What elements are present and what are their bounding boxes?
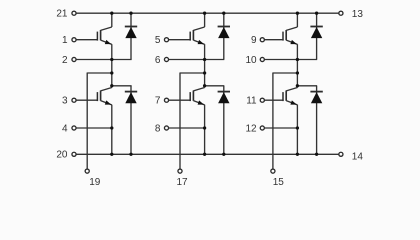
svg-text:19: 19 [89,177,101,188]
svg-text:4: 4 [62,123,68,134]
svg-text:1: 1 [62,35,68,46]
svg-text:15: 15 [273,177,285,188]
svg-text:21: 21 [56,9,68,20]
svg-text:6: 6 [155,55,161,66]
svg-text:13: 13 [352,9,364,20]
svg-text:14: 14 [352,151,364,162]
svg-text:20: 20 [56,150,68,161]
svg-text:8: 8 [155,123,161,134]
svg-text:5: 5 [155,35,161,46]
svg-text:9: 9 [251,35,257,46]
svg-text:3: 3 [62,96,68,107]
svg-text:12: 12 [245,123,257,134]
svg-text:7: 7 [155,96,161,107]
svg-text:2: 2 [62,55,68,66]
svg-text:10: 10 [245,55,257,66]
svg-text:11: 11 [246,96,257,107]
svg-text:17: 17 [176,177,188,188]
